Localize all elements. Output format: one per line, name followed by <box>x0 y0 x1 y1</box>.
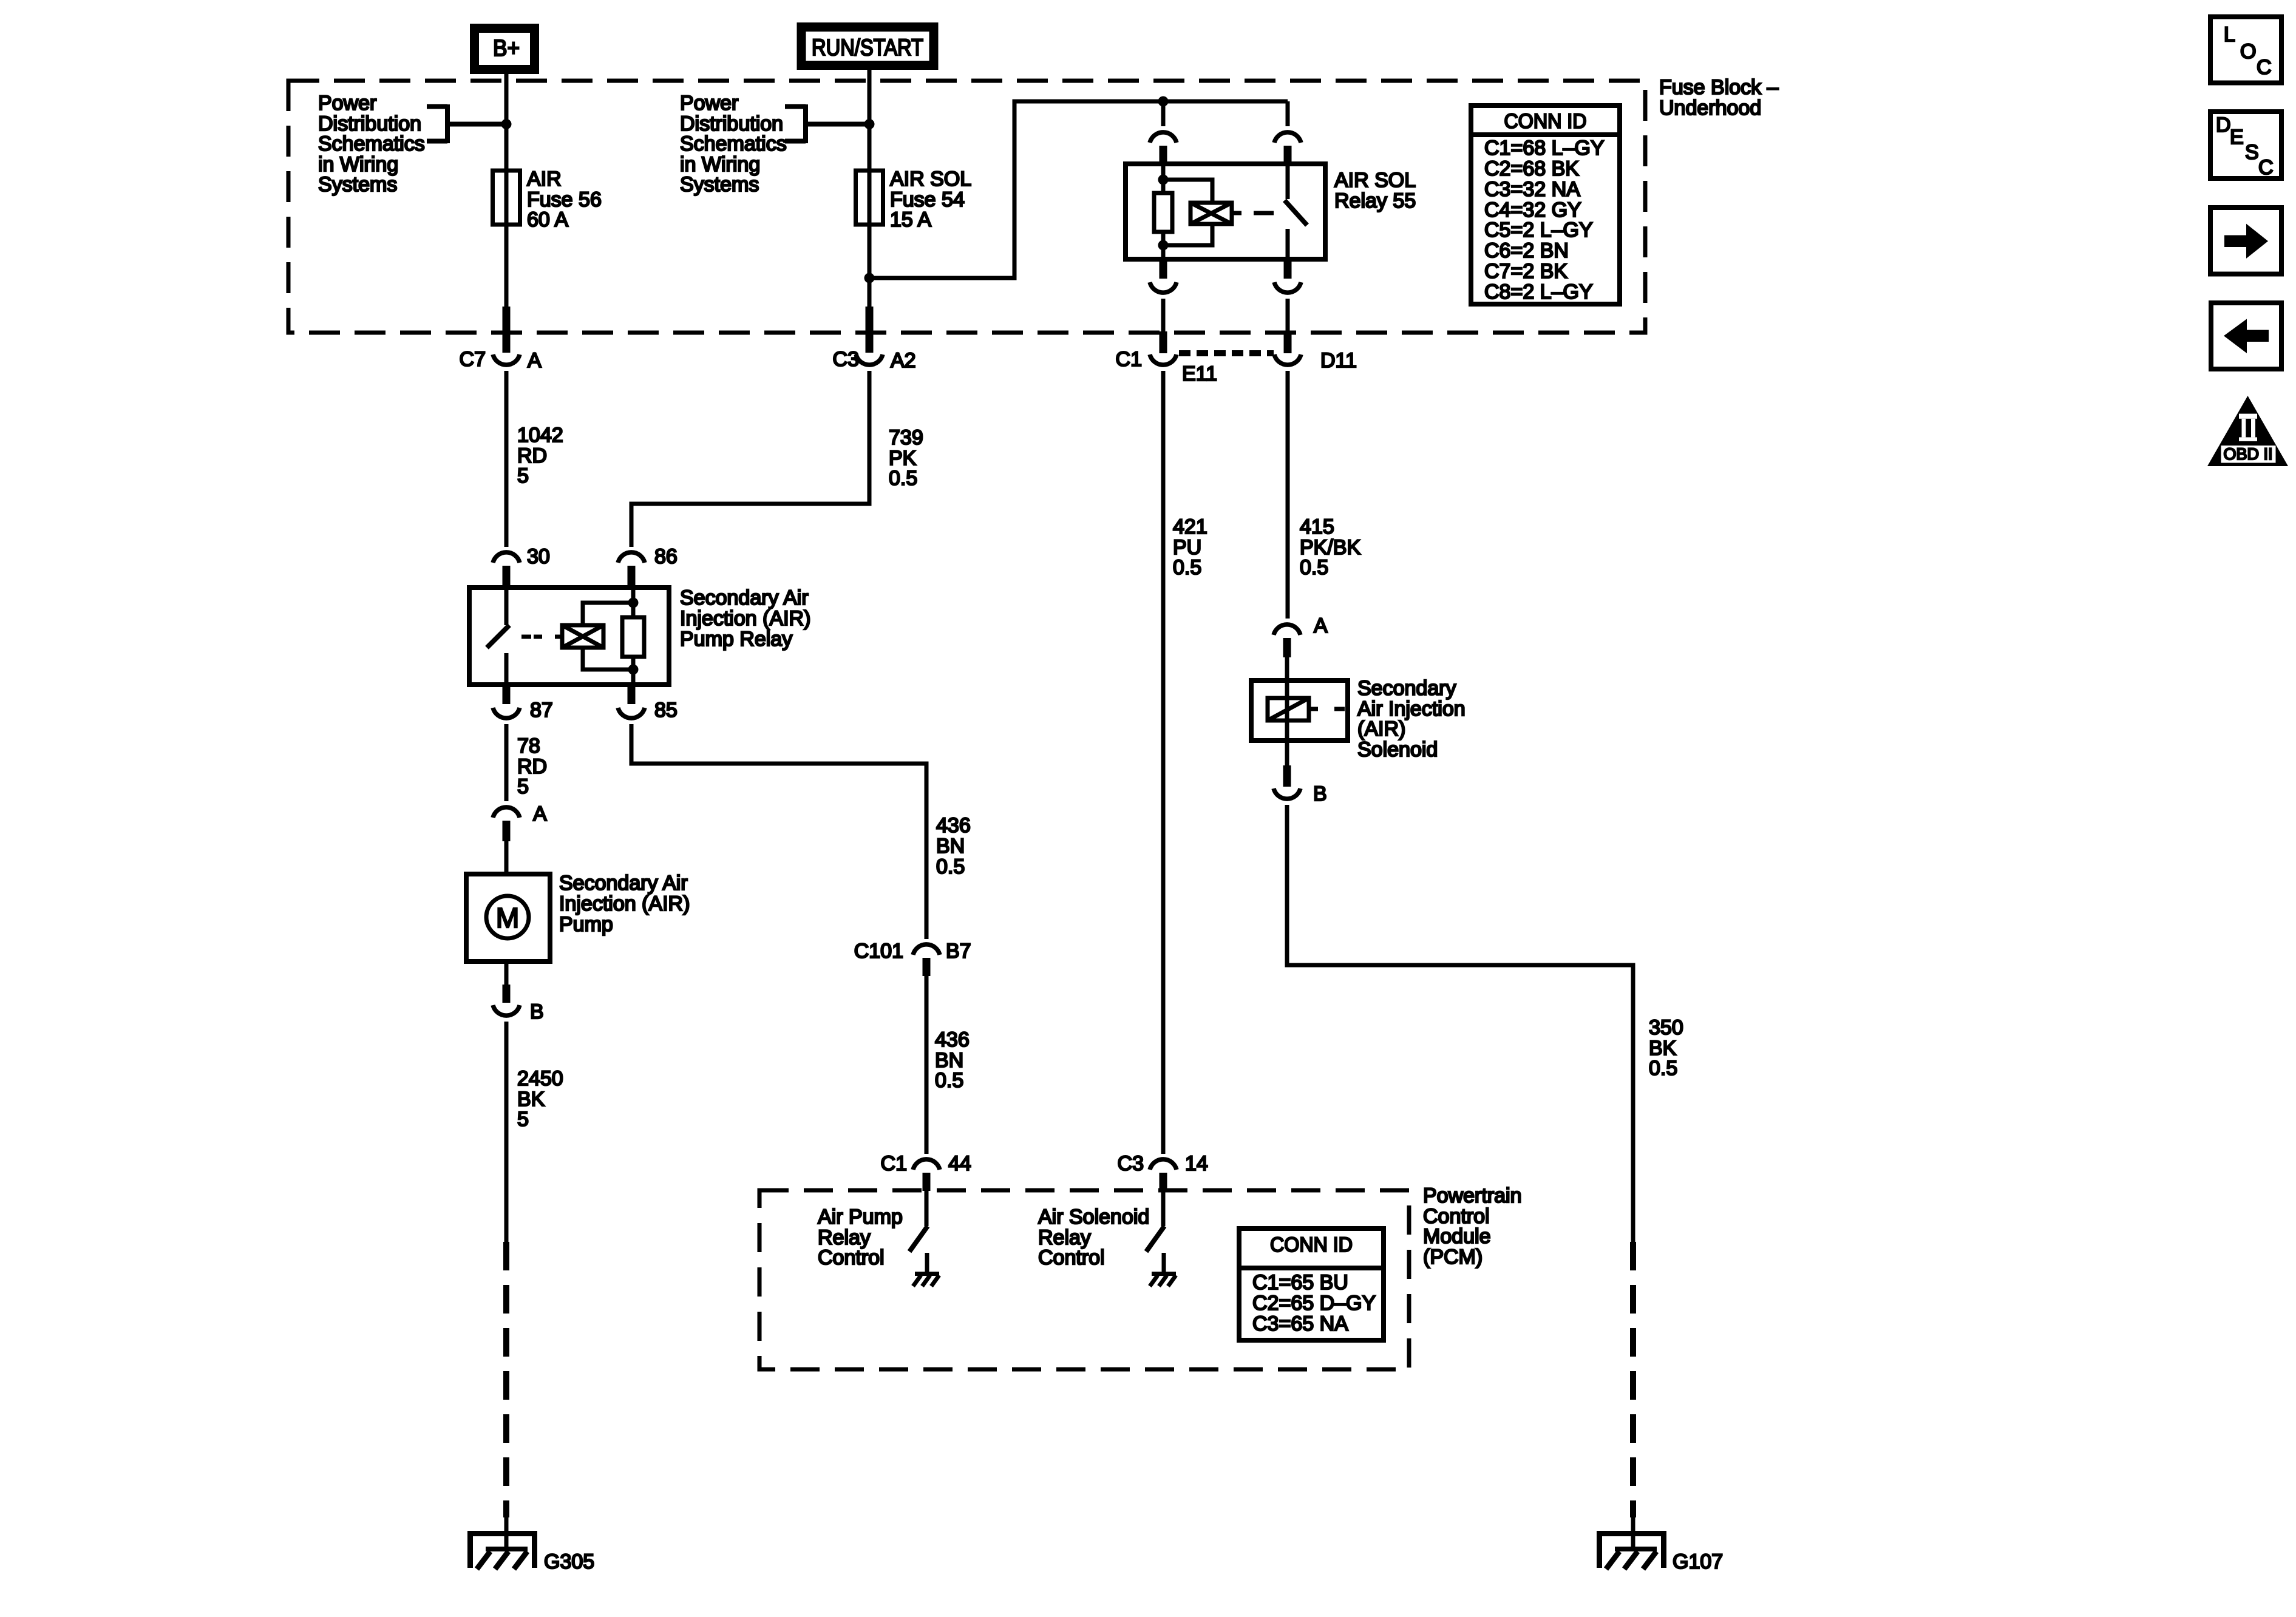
svg-text:G107: G107 <box>1673 1550 1723 1573</box>
svg-text:Systems: Systems <box>318 173 397 196</box>
svg-text:Solenoid: Solenoid <box>1357 738 1438 761</box>
svg-text:B: B <box>530 1000 544 1023</box>
svg-text:0.5: 0.5 <box>889 467 917 490</box>
svg-text:2450: 2450 <box>517 1067 563 1090</box>
svg-text:Schematics: Schematics <box>318 132 425 155</box>
svg-text:C1: C1 <box>1116 348 1142 371</box>
svg-text:Control: Control <box>1038 1246 1105 1269</box>
AIR SOL relay actuation dash <box>1254 211 1274 215</box>
svg-text:G305: G305 <box>544 1550 594 1573</box>
AIR SOL relay resistor <box>1154 193 1172 232</box>
svg-text:Underhood: Underhood <box>1659 97 1761 120</box>
svg-text:415: 415 <box>1300 515 1334 538</box>
AIR pump relay box <box>469 588 669 685</box>
wire 2450 BK 5 (hidden section) <box>503 1242 509 1517</box>
svg-text:C6=2 BN: C6=2 BN <box>1484 239 1569 262</box>
bracket symbol (right note) <box>785 104 806 109</box>
relay terminal 30 <box>493 552 520 563</box>
wire 78 RD 5 <box>504 724 509 801</box>
svg-text:Fuse Block –: Fuse Block – <box>1659 76 1779 99</box>
svg-text:C2=65 D–GY: C2=65 D–GY <box>1252 1292 1376 1315</box>
svg-text:Injection (AIR): Injection (AIR) <box>680 607 810 630</box>
connector C1/E11 stub <box>1160 331 1167 353</box>
svg-text:60 A: 60 A <box>527 208 568 231</box>
connector C1/E11 <box>1150 354 1177 365</box>
svg-text:OBD II: OBD II <box>2223 445 2272 463</box>
CONN ID table (PCM) <box>1239 1229 1384 1340</box>
AIR SOL relay box <box>1126 164 1325 259</box>
svg-text:14: 14 <box>1185 1152 1208 1175</box>
ground (air pump relay control) <box>915 1272 939 1276</box>
AIR SOL relay coil bracket <box>1163 180 1212 203</box>
svg-text:Air Pump: Air Pump <box>818 1205 903 1229</box>
svg-text:5: 5 <box>517 464 529 487</box>
svg-text:Module: Module <box>1423 1225 1491 1248</box>
ground (air solenoid relay control) <box>1152 1272 1176 1276</box>
svg-text:C: C <box>2258 156 2274 179</box>
svg-text:Secondary Air: Secondary Air <box>680 586 809 609</box>
svg-text:436: 436 <box>935 1028 970 1051</box>
svg-text:44: 44 <box>948 1152 971 1175</box>
AIR SOL relay terminal (right switch) <box>1286 101 1290 126</box>
svg-text:A: A <box>1314 614 1328 637</box>
svg-text:Injection (AIR): Injection (AIR) <box>559 892 690 915</box>
svg-text:Systems: Systems <box>680 173 759 196</box>
svg-text:0.5: 0.5 <box>1649 1057 1677 1080</box>
relay coil <box>555 635 562 639</box>
svg-text:87: 87 <box>530 699 553 722</box>
relay actuation dashes <box>521 635 542 639</box>
svg-text:C3=32 NA: C3=32 NA <box>1484 178 1580 201</box>
svg-text:C1=68 L–GY: C1=68 L–GY <box>1484 137 1605 160</box>
svg-text:O: O <box>2240 40 2256 63</box>
svg-text:A: A <box>528 349 542 372</box>
air solenoid relay control driver <box>1161 1190 1166 1226</box>
pump connector A <box>493 807 520 818</box>
connector C3/A2 <box>856 354 883 365</box>
icon arrow left <box>2211 303 2281 369</box>
air pump relay control driver <box>925 1190 929 1226</box>
svg-text:S: S <box>2245 141 2259 164</box>
svg-text:D: D <box>2216 114 2231 137</box>
svg-text:D11: D11 <box>1320 349 1357 372</box>
wire 421 PU 0.5 <box>1161 371 1166 1154</box>
svg-text:M: M <box>496 902 519 934</box>
solenoid element <box>1268 698 1309 720</box>
svg-text:Relay 55: Relay 55 <box>1334 189 1416 212</box>
AIR SOL relay terminal (left coil) <box>1161 101 1166 126</box>
AIR SOL relay switch <box>1286 164 1290 199</box>
wire 436 BN 0.5 (lower) <box>925 976 929 1154</box>
svg-text:30: 30 <box>527 545 550 568</box>
PCM connector C3/14 <box>1150 1159 1177 1170</box>
wire 350 BK 0.5 (solid) <box>1287 805 1633 1242</box>
AIR solenoid box <box>1251 680 1348 741</box>
connector D11 <box>1274 354 1301 365</box>
junction node to relay feed <box>864 273 875 283</box>
svg-text:E11: E11 <box>1182 362 1217 385</box>
svg-text:(AIR): (AIR) <box>1357 717 1405 741</box>
icon LOC <box>2210 17 2281 83</box>
solenoid connector B <box>1283 765 1291 787</box>
ground G305 <box>469 1531 535 1569</box>
ground G107 <box>1598 1531 1665 1569</box>
svg-text:B7: B7 <box>946 940 971 963</box>
svg-text:C8=2 L–GY: C8=2 L–GY <box>1484 280 1593 303</box>
AIR SOL relay bottom stubs <box>1160 259 1167 279</box>
svg-text:A: A <box>533 802 547 825</box>
svg-text:Pump: Pump <box>559 913 613 936</box>
svg-text:Control: Control <box>818 1246 885 1269</box>
fuse AIR Fuse 56 <box>493 171 520 225</box>
connector D11 stub <box>1284 331 1292 353</box>
wire 2450 BK 5 (solid) <box>504 1022 509 1242</box>
svg-text:L: L <box>2224 23 2235 46</box>
svg-text:C1=65 BU: C1=65 BU <box>1252 1271 1348 1294</box>
wire through solenoid <box>1285 720 1289 765</box>
svg-text:AIR SOL: AIR SOL <box>890 168 971 191</box>
svg-text:C: C <box>2257 56 2272 79</box>
bracket symbol (left note) <box>427 104 447 109</box>
relay terminal 86 <box>618 552 645 563</box>
fuse block underhood dashed outline <box>288 81 1645 333</box>
svg-text:AIR: AIR <box>527 168 562 191</box>
fuse AIR SOL Fuse 54 <box>856 171 883 225</box>
relay coil bracket <box>583 603 633 625</box>
svg-text:C2=68 BK: C2=68 BK <box>1484 157 1579 180</box>
PCM connector C1/44 <box>913 1159 940 1170</box>
relay terminal 85 <box>628 685 636 704</box>
AIR pump motor box <box>466 874 550 961</box>
svg-text:B: B <box>1313 782 1327 805</box>
wire 436 BN 0.5 (upper) <box>631 724 926 939</box>
svg-text:Schematics: Schematics <box>680 132 787 155</box>
connector C7/A stub <box>503 307 511 353</box>
svg-text:C3: C3 <box>1118 1152 1144 1175</box>
wire 415 PK/BK 0.5 <box>1286 371 1290 619</box>
svg-text:5: 5 <box>517 775 529 798</box>
relay resistor <box>622 617 644 657</box>
svg-text:C7: C7 <box>460 348 486 371</box>
connector linkage dashes E11 <box>1179 350 1274 356</box>
svg-text:BN: BN <box>936 835 965 858</box>
junction node on RUN/START wire <box>864 119 875 129</box>
svg-text:AIR SOL: AIR SOL <box>1334 169 1416 192</box>
svg-text:78: 78 <box>517 734 540 758</box>
wire 350 BK 0.5 (hidden section) <box>1630 1242 1636 1517</box>
power feed box B+ <box>475 29 535 70</box>
svg-text:C3=65 NA: C3=65 NA <box>1252 1312 1348 1335</box>
svg-text:Powertrain: Powertrain <box>1423 1184 1522 1207</box>
svg-text:Air Solenoid: Air Solenoid <box>1038 1205 1149 1229</box>
relay switch (30-87) <box>504 588 509 625</box>
icon arrow right <box>2210 208 2281 274</box>
svg-text:739: 739 <box>889 426 923 449</box>
svg-text:C101: C101 <box>854 940 903 963</box>
wire 739 PK 0.5 <box>631 371 869 547</box>
relay internal wire 86-85 <box>631 588 636 685</box>
motor M circle <box>486 896 529 938</box>
wires relay to fuse block edge <box>1161 299 1166 331</box>
svg-text:85: 85 <box>654 699 678 722</box>
power feed box RUN/START <box>801 27 934 66</box>
svg-text:1042: 1042 <box>517 424 563 447</box>
AIR SOL relay coil branch <box>1161 164 1166 259</box>
svg-text:C3: C3 <box>833 348 859 371</box>
svg-text:421: 421 <box>1173 515 1207 538</box>
relay terminal 87 <box>503 685 511 704</box>
svg-text:Power: Power <box>318 92 376 115</box>
svg-text:0.5: 0.5 <box>935 1069 963 1092</box>
solenoid actuation dash <box>1334 707 1345 711</box>
svg-text:E: E <box>2230 126 2244 149</box>
AIR SOL relay coil <box>1190 203 1232 224</box>
svg-text:RUN/START: RUN/START <box>812 35 923 61</box>
CONN ID table (fuse block) <box>1471 106 1620 304</box>
PCM dashed outline <box>759 1190 1409 1369</box>
wire to solenoid <box>1285 657 1289 698</box>
svg-text:86: 86 <box>654 545 678 568</box>
svg-text:Power: Power <box>680 92 738 115</box>
pump connector B <box>504 961 509 986</box>
svg-text:15 A: 15 A <box>890 208 931 231</box>
svg-text:0.5: 0.5 <box>1300 556 1328 579</box>
svg-text:350: 350 <box>1649 1016 1683 1039</box>
svg-text:436: 436 <box>936 814 971 837</box>
svg-text:B+: B+ <box>493 36 520 61</box>
wire to pump <box>504 841 509 874</box>
svg-text:0.5: 0.5 <box>936 855 965 878</box>
svg-text:Secondary: Secondary <box>1357 677 1456 700</box>
junction node above relay coil <box>1158 97 1169 107</box>
svg-text:C7=2 BK: C7=2 BK <box>1484 260 1567 283</box>
junction node on B+ wire <box>501 119 512 129</box>
svg-text:CONN ID: CONN ID <box>1504 110 1587 133</box>
svg-text:A2: A2 <box>891 349 916 372</box>
svg-text:0.5: 0.5 <box>1173 556 1201 579</box>
svg-text:5: 5 <box>517 1108 529 1131</box>
svg-text:(PCM): (PCM) <box>1423 1246 1483 1269</box>
wire fuse 54 to AIR SOL relay (up and over) <box>869 101 1288 278</box>
wire B+ down through fuse 56 <box>504 74 509 307</box>
icon OBD II triangle <box>2207 396 2288 466</box>
wire RUN/START down through fuse 54 <box>868 70 872 307</box>
svg-text:C5=2 L–GY: C5=2 L–GY <box>1484 219 1593 242</box>
svg-text:C1: C1 <box>881 1152 907 1175</box>
svg-text:Pump Relay: Pump Relay <box>680 628 792 651</box>
connector C7/A <box>493 354 520 365</box>
connector C3/A2 stub <box>866 307 874 353</box>
connector C101/B7 <box>913 944 940 955</box>
wire 1042 RD 5 <box>504 371 509 547</box>
svg-text:CONN ID: CONN ID <box>1270 1233 1353 1256</box>
svg-text:Secondary Air: Secondary Air <box>559 872 688 895</box>
icon DESC <box>2210 112 2281 178</box>
solenoid connector A <box>1274 625 1300 635</box>
